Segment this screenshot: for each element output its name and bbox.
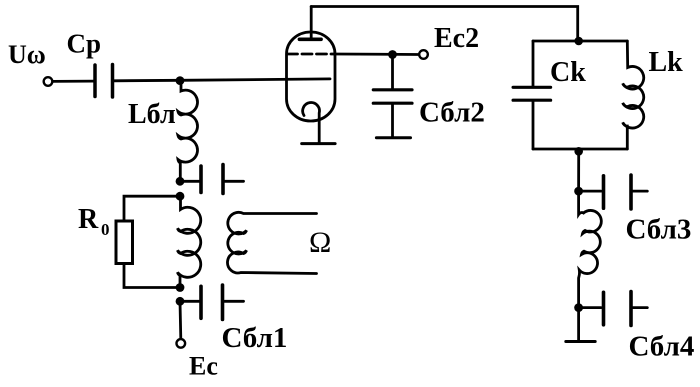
wire screen grid to Ec2 [334, 53, 419, 56]
svg-text:Сбл3: Сбл3 [626, 214, 692, 246]
tube envelope U1 [287, 32, 336, 121]
capacitor Cp [93, 65, 97, 97]
capacitor Сбл1 [184, 300, 199, 303]
node A junction [176, 177, 185, 186]
node grid junction [176, 76, 185, 85]
svg-text:Lk: Lk [649, 47, 684, 78]
wire R0 top branch [124, 196, 180, 221]
capacitor Сбл4 [583, 306, 601, 309]
tube cathode [303, 103, 320, 144]
wire tank to Сбл3 node [577, 149, 580, 191]
capacitor blocking upper [184, 180, 199, 183]
svg-text:0: 0 [101, 220, 110, 239]
wire anode to tank top [311, 7, 578, 42]
wire Cp to tube grid [114, 79, 330, 81]
wire tank bottom rail [533, 148, 627, 151]
inductor Lk [623, 41, 644, 149]
svg-text:Сбл2: Сбл2 [419, 97, 485, 129]
svg-text:Сбл1: Сбл1 [222, 322, 288, 354]
inductor transformer secondary [227, 212, 316, 273]
svg-text:Ck: Ck [550, 57, 586, 88]
svg-text:R: R [78, 204, 99, 235]
inductor choke bottom right [579, 191, 602, 308]
svg-text:Cp: Cp [67, 29, 102, 59]
node Uω input terminal [44, 77, 53, 86]
node Ec2 junction [388, 50, 397, 59]
wire tank top rail [533, 40, 627, 43]
ground Сбл2 [376, 136, 410, 139]
node tank bottom junction [574, 147, 583, 156]
node C junction [176, 283, 185, 292]
wire to Ec terminal [179, 301, 183, 339]
wire R0 bottom branch [124, 264, 180, 288]
node Ec2 terminal [419, 50, 428, 59]
node tank top junction [574, 37, 583, 46]
wire Ec2 node to Сбл2 [391, 55, 394, 89]
resistor R0 [116, 221, 133, 264]
tube anode lead [310, 7, 313, 40]
node Ec terminal [177, 339, 186, 348]
svg-text:Lбл: Lбл [128, 99, 176, 130]
node D junction [176, 297, 185, 306]
ground bottom right [566, 340, 595, 343]
tube anode bar [299, 37, 321, 41]
svg-text:Uω: Uω [8, 40, 46, 69]
svg-text:Сбл4: Сбл4 [629, 331, 695, 363]
node B junction [176, 192, 185, 201]
node Сбл3 junction [574, 187, 583, 196]
capacitor Ck [513, 86, 551, 89]
node Сбл4 junction [574, 303, 583, 312]
inductor transformer primary [178, 196, 201, 287]
svg-text:Ec2: Ec2 [434, 23, 479, 54]
svg-text:Ec: Ec [189, 352, 218, 381]
wire tank left branch [532, 41, 535, 86]
wire Сбл4 node to ground [577, 308, 580, 340]
capacitor Сбл2 [373, 88, 412, 91]
svg-text:Ω: Ω [309, 226, 331, 259]
inductor Lбл [178, 81, 197, 184]
wire input to Cp [53, 80, 93, 83]
capacitor Сбл3 [583, 190, 601, 193]
tube screen grid dashed [288, 53, 335, 56]
ground cathode [302, 142, 335, 145]
